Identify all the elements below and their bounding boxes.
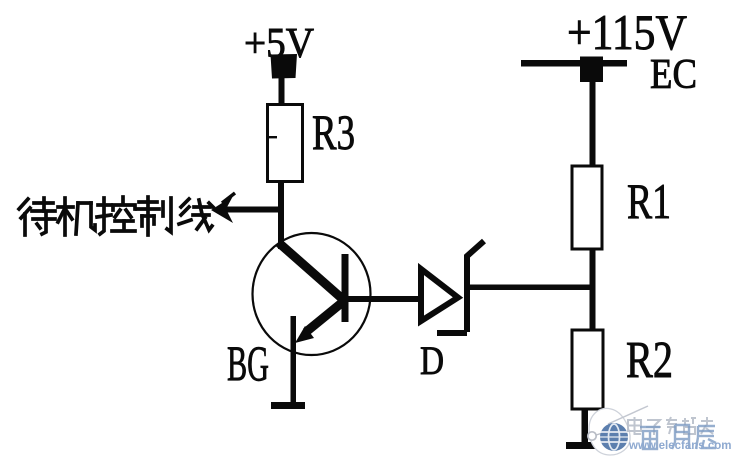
wire junction to left arrow xyxy=(224,207,282,213)
arrow tail tick xyxy=(222,193,235,203)
cathode top hook xyxy=(466,241,484,257)
wire R2 to ground xyxy=(582,408,589,446)
resistor R3 xyxy=(268,105,303,182)
wire +5V to R3 xyxy=(279,74,285,106)
label 待机控制线 (standby control line) xyxy=(19,197,213,235)
transistor emitter arrowhead xyxy=(295,326,314,343)
char 制 xyxy=(137,197,171,235)
ground (emitter) xyxy=(271,402,305,409)
wire R1 to R2 through junction xyxy=(590,249,596,331)
diode cathode bar xyxy=(464,255,470,332)
EC rail bar xyxy=(521,60,627,67)
ground (R2) xyxy=(566,442,614,449)
transistor BG circle xyxy=(253,233,371,355)
+5V terminal square xyxy=(271,54,298,79)
watermark: elecfans logo swoosh xyxy=(588,406,648,455)
char 线 xyxy=(179,199,213,230)
arrowhead on standby control line xyxy=(211,196,233,223)
transistor emitter diagonal xyxy=(306,301,344,332)
char 控 xyxy=(97,197,135,234)
wire R3 to junction to transistor base xyxy=(278,181,284,249)
char 待 xyxy=(19,198,55,235)
cathode bottom hook xyxy=(437,330,467,336)
resistor R1 xyxy=(572,166,602,249)
svg-text:EC: EC xyxy=(650,52,697,98)
char 机 xyxy=(58,198,95,235)
svg-text:R1: R1 xyxy=(627,173,671,229)
svg-text:www.elecfans.com: www.elecfans.com xyxy=(628,440,731,452)
resistor R3 inner tick xyxy=(267,136,277,138)
diode D triangle xyxy=(421,269,458,321)
emitter wire down xyxy=(291,316,297,403)
transistor collector diagonal xyxy=(279,243,346,302)
svg-text:D: D xyxy=(420,338,444,383)
wire diode to divider junction xyxy=(468,285,593,291)
svg-text:BG: BG xyxy=(227,335,269,391)
svg-text:R3: R3 xyxy=(312,104,355,160)
svg-text:R2: R2 xyxy=(626,332,673,389)
watermark globe xyxy=(600,423,628,451)
watermark blue characters xyxy=(640,425,716,449)
wire base to diode xyxy=(348,296,420,302)
wire EC to R1 xyxy=(590,82,596,167)
resistor R2 xyxy=(572,330,603,409)
EC terminal square xyxy=(580,57,603,83)
watermark gray text 电子发烧友 xyxy=(628,417,713,435)
transistor base bar xyxy=(342,254,349,322)
